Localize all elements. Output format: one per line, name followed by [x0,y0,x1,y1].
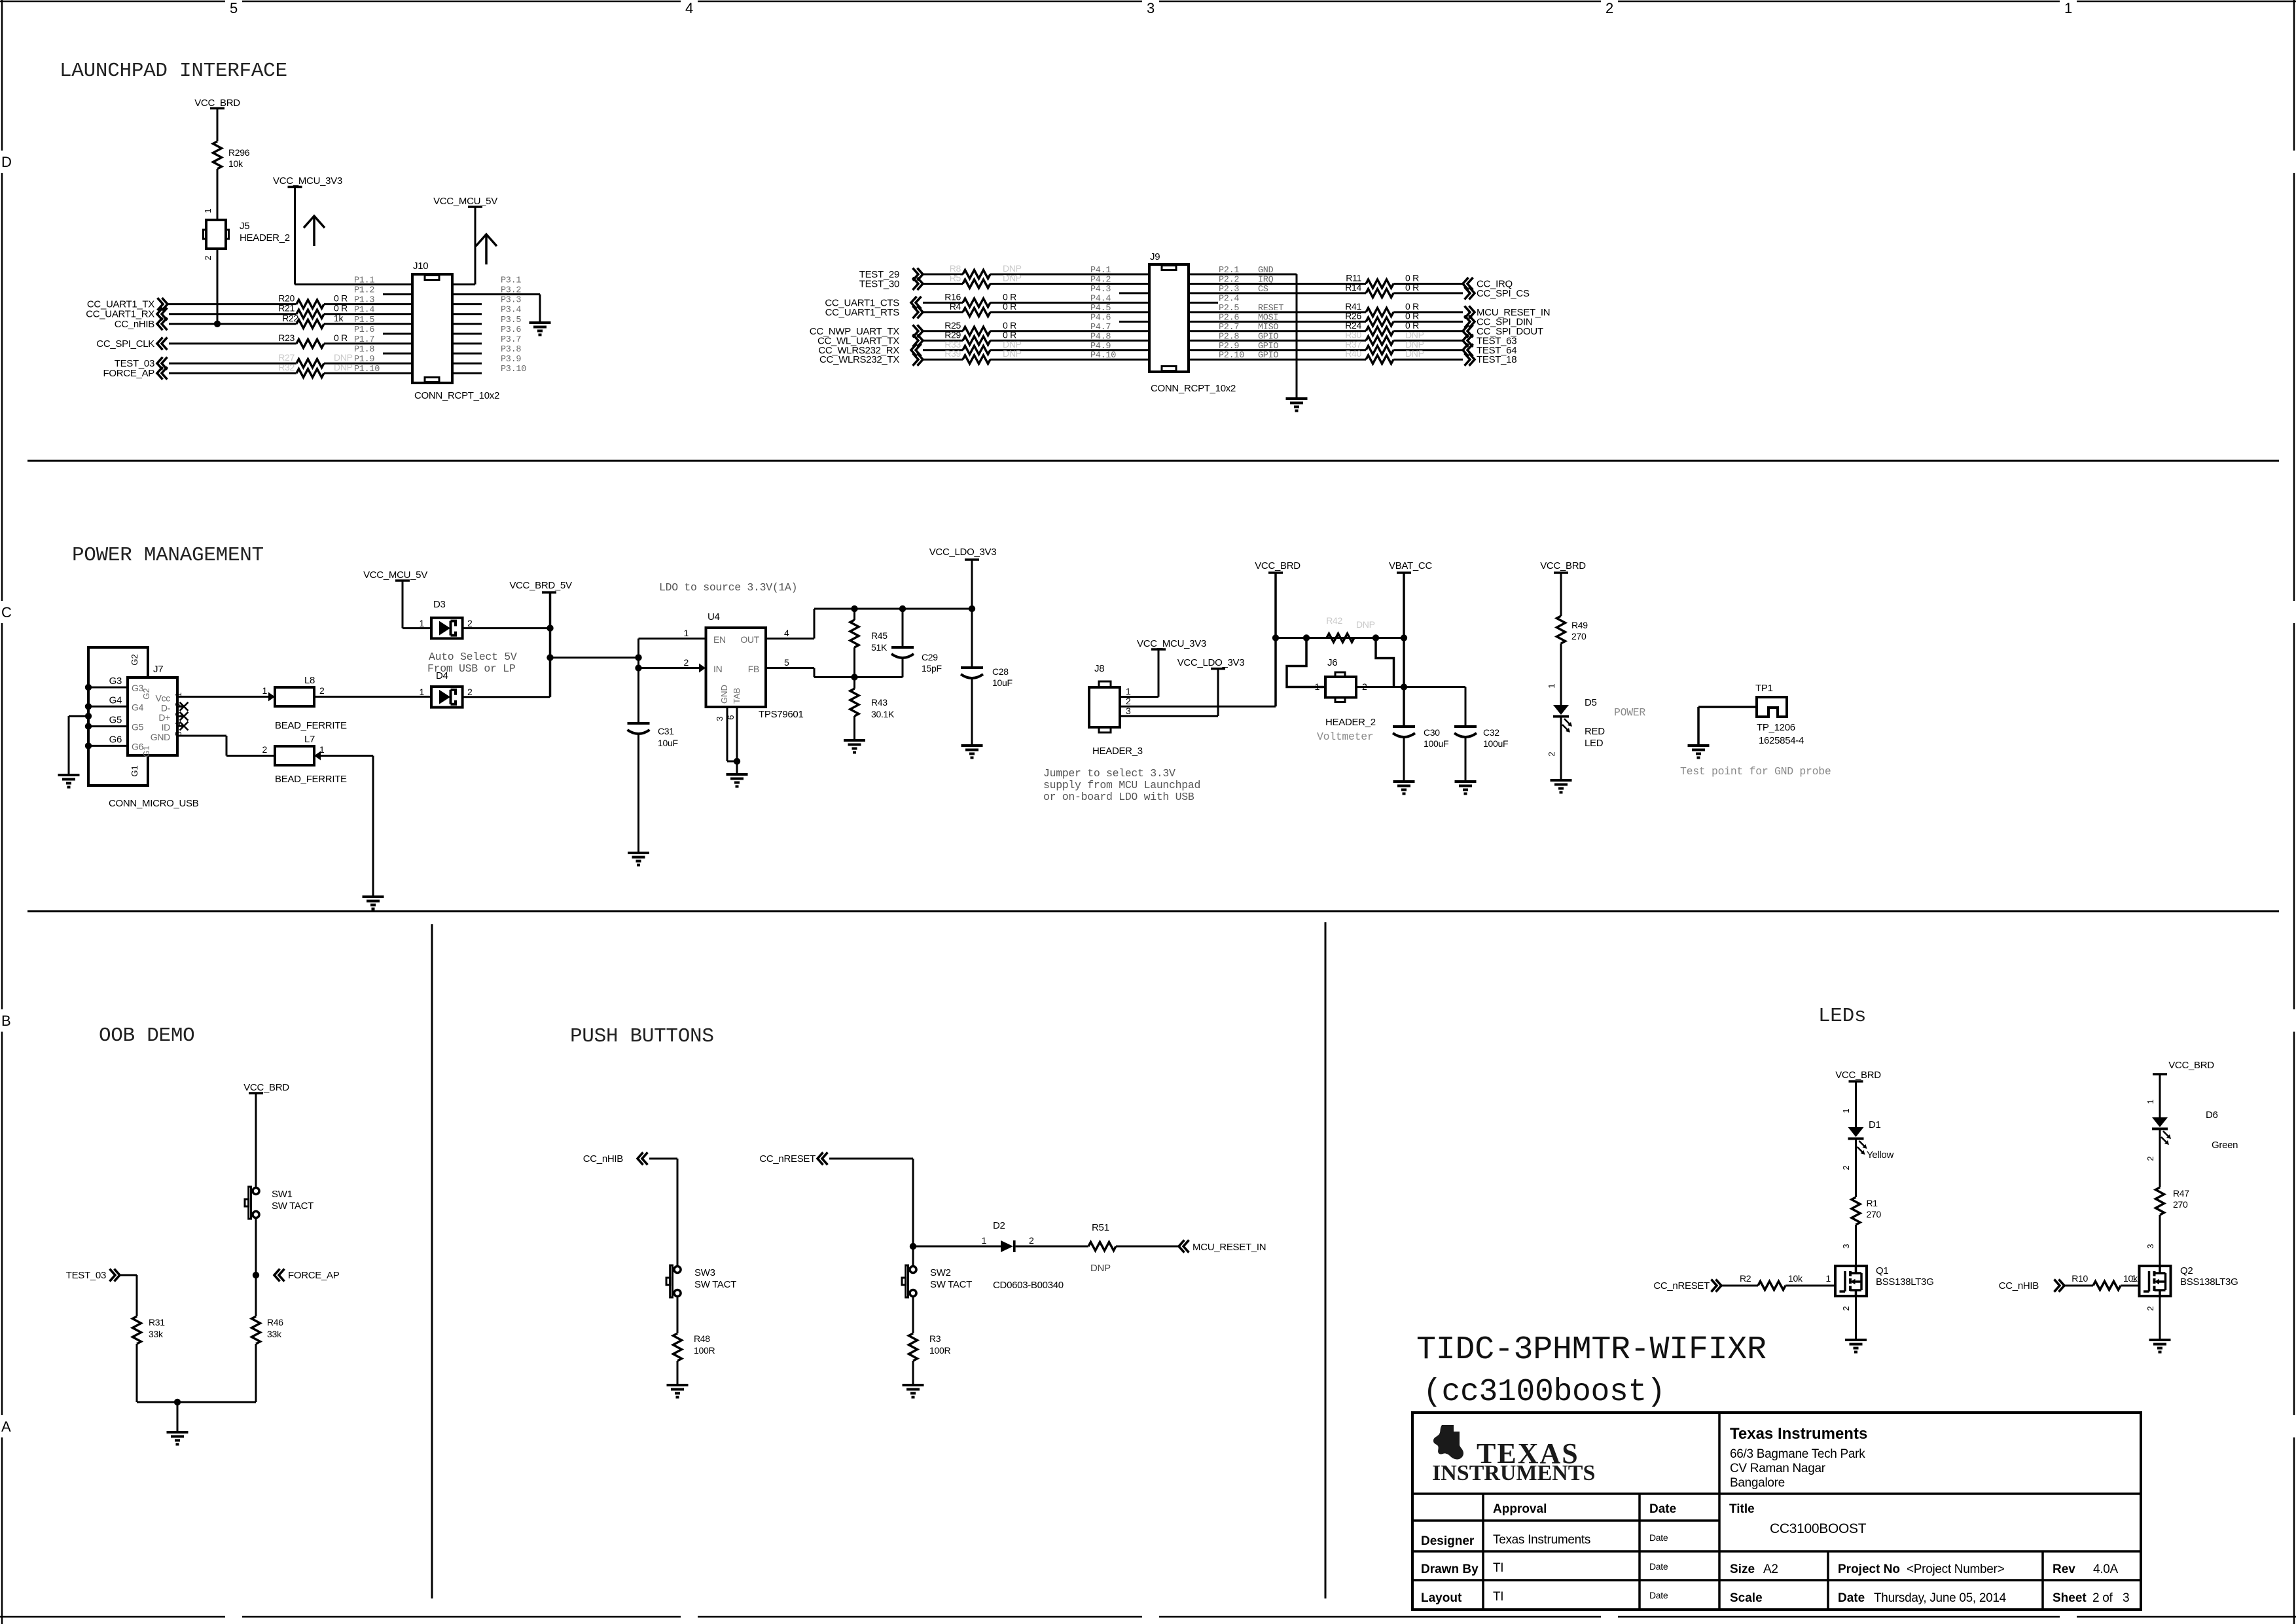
svg-text:L7: L7 [304,734,315,745]
svg-text:POWER MANAGEMENT: POWER MANAGEMENT [72,544,264,567]
svg-text:VCC_MCU_5V: VCC_MCU_5V [433,196,497,207]
svg-text:C28: C28 [992,666,1009,677]
svg-text:DNP: DNP [1405,348,1424,359]
wire U4 FB [766,667,814,669]
svg-text:SW3: SW3 [694,1267,715,1278]
wire VCC_MCU_5V to J10 P3.1 [475,207,476,285]
svg-text:G1: G1 [141,746,151,757]
resistor R22 1k [296,319,324,328]
svg-text:1k: 1k [334,313,344,323]
wire J7 Vcc to L8 [177,696,268,698]
resistor R29 0 R [963,336,990,345]
svg-text:J6: J6 [1327,657,1337,668]
wire J9 to resistor R11 [1189,283,1366,285]
wire resistor to J9 [990,283,1149,285]
pin G5 J7 [88,725,128,727]
svg-text:CONN_MICRO_USB: CONN_MICRO_USB [109,798,199,809]
svg-text:CC_UART1_RTS: CC_UART1_RTS [825,307,900,318]
wire CC_nHIB to SW3 [649,1158,677,1160]
svg-text:Q2: Q2 [2180,1265,2193,1276]
wire resistor to MCU_RESET_IN [1393,311,1463,313]
svg-text:SW TACT: SW TACT [694,1279,736,1290]
svg-text:CC_nRESET: CC_nRESET [1653,1280,1710,1291]
junction bus at J6 pin2 branch [1372,634,1379,641]
svg-text:P3.3: P3.3 [501,296,521,306]
resistor R24 0 R [1366,327,1393,335]
node TEST_64 [1463,344,1469,356]
svg-text:1: 1 [2132,1273,2137,1284]
svg-text:Jumper to select 3.3V: Jumper to select 3.3V [1043,767,1175,780]
wire CC_WL_UART_TX to resistor [923,340,963,342]
svg-text:D6: D6 [2206,1110,2218,1121]
svg-text:P1.8: P1.8 [354,345,374,355]
svg-text:1: 1 [1841,1108,1851,1113]
wire stub P4.6 [1119,321,1149,323]
resistor R296 10k [213,141,222,169]
wire D4 to VCC_BRD_5V [463,696,550,698]
svg-text:VCC_MCU_3V3: VCC_MCU_3V3 [273,175,342,187]
resistor R26 0 R [1366,317,1393,326]
junction VCC_BRD_5V / LDO input [547,654,553,660]
node MCU_RESET_IN (push buttons) [1179,1240,1185,1253]
svg-text:5: 5 [784,657,789,668]
wire TP1 to ground [1698,706,1757,708]
svg-text:SW TACT: SW TACT [930,1279,972,1290]
svg-text:Rev: Rev [2053,1562,2075,1576]
wire stub P1.6 [383,333,412,334]
svg-text:TEST_03: TEST_03 [66,1270,106,1281]
svg-text:1: 1 [982,1235,987,1246]
resistor R30 DNP [1366,336,1393,345]
resistor R33 DNP [963,346,990,354]
svg-text:R46: R46 [267,1317,283,1327]
resistor R5 DNP [963,280,990,288]
svg-text:ID: ID [162,722,171,732]
svg-text:1: 1 [420,618,425,628]
wire D2 to R51 [1016,1246,1088,1248]
svg-text:Yellow: Yellow [1867,1149,1893,1161]
junction VCC_BRD_5V / D3 [547,624,553,631]
wire U4 OUT to output bus [766,638,814,640]
ground at J10 P3.2 [529,321,551,324]
svg-text:2: 2 [1605,0,1613,16]
svg-text:VCC_LDO_3V3: VCC_LDO_3V3 [929,547,997,558]
svg-text:1: 1 [1826,1273,1831,1284]
wire stub P2.4 [1189,302,1218,304]
wire CC_nHIB to R10 [2064,1285,2093,1287]
svg-text:VCC_BRD_5V: VCC_BRD_5V [509,580,572,591]
svg-text:OOB DEMO: OOB DEMO [99,1024,194,1047]
capacitor C29 15pF [902,609,904,647]
svg-text:J8: J8 [1094,663,1104,674]
svg-text:FORCE_AP: FORCE_AP [103,368,155,379]
junction R45 top [851,605,857,612]
node CC_IRQ [1463,278,1469,290]
svg-text:Auto Select 5V: Auto Select 5V [429,651,517,663]
svg-text:Texas Instruments: Texas Instruments [1493,1533,1590,1547]
no-connect stub J7 [177,725,183,727]
svg-text:C30: C30 [1424,727,1440,738]
svg-text:1: 1 [684,628,689,638]
svg-text:CC_WLRS232_TX: CC_WLRS232_TX [819,354,899,365]
resistor R3 100R [909,1333,918,1361]
wire L8 to D4 [314,696,431,698]
svg-text:J10: J10 [413,261,428,272]
resistor R11 0 R [1366,280,1393,288]
svg-text:Scale: Scale [1730,1591,1763,1605]
svg-text:1: 1 [1315,681,1320,692]
wire CC_nRESET to SW2 [829,1158,913,1160]
wire R2 to Q1 gate [1785,1285,1835,1287]
wire resistor to J9 [990,274,1149,276]
node CC_SPI_CS [1469,287,1475,299]
svg-text:D-: D- [161,702,171,713]
resistor R49 270 [1557,616,1566,643]
LED D5 RED [1553,705,1569,715]
svg-text:Sheet: Sheet [2053,1591,2087,1605]
svg-text:2: 2 [203,255,213,260]
wire VCC_BRD to R296 [217,109,219,142]
svg-text:A2: A2 [1763,1562,1778,1576]
resistor R51 DNP [1088,1242,1116,1251]
svg-text:J5: J5 [240,221,249,232]
wire stub P1.2 [383,293,412,295]
svg-text:BSS138LT3G: BSS138LT3G [2180,1276,2238,1288]
section divider horizontal 2 [27,911,2279,912]
svg-text:2: 2 [467,687,473,697]
svg-text:TAB: TAB [732,688,742,704]
svg-text:P3.4: P3.4 [501,306,521,316]
svg-text:D+: D+ [158,712,170,723]
no-connect stub J7 [177,715,183,717]
svg-text:G2: G2 [130,654,139,665]
svg-text:P1.6: P1.6 [354,325,374,335]
svg-text:GND: GND [151,732,170,742]
wire bus VCC_BRD to VBAT_CC [1276,637,1404,639]
svg-text:VBAT_CC: VBAT_CC [1389,560,1432,571]
svg-text:CD0603-B00340: CD0603-B00340 [993,1280,1064,1291]
junction R43 top [851,674,857,680]
wire to C31 [637,668,639,724]
svg-text:Texas Instruments: Texas Instruments [1730,1425,1867,1443]
wire J6 pin2 to VBAT_CC [1356,686,1404,688]
svg-text:270: 270 [1867,1209,1882,1219]
resistor R47 270 [2156,1187,2164,1215]
svg-text:DNP: DNP [334,362,353,372]
capacitor C30 100uF [1393,725,1415,728]
svg-text:0 R: 0 R [1405,282,1419,293]
svg-text:CC3100BOOST: CC3100BOOST [1770,1521,1867,1536]
svg-text:Voltmeter: Voltmeter [1317,731,1373,743]
svg-text:R32: R32 [278,362,295,372]
svg-text:33k: 33k [149,1329,164,1339]
title block column line B [1638,1494,1641,1610]
svg-text:Green: Green [2212,1140,2238,1151]
wire J9 to resistor R14 [1189,292,1366,294]
ground at Q2 [2149,1339,2171,1341]
title block column line A [1482,1494,1484,1610]
wire C31 to ground [637,734,639,853]
resistor R23 0 R [296,339,324,348]
svg-text:R31: R31 [149,1317,165,1327]
ground at C31 [628,852,649,854]
wire stub P3.8 [452,353,482,355]
transistor Q2 BSS138LT3G [2140,1266,2171,1296]
ground at C28 [961,744,983,747]
wire stub P3.10 [452,372,482,374]
svg-text:66/3 Bagmane Tech Park: 66/3 Bagmane Tech Park [1730,1447,1865,1461]
svg-text:0 R: 0 R [334,303,348,314]
svg-text:D3: D3 [433,599,446,610]
svg-text:R22: R22 [282,313,298,323]
svg-text:1: 1 [2145,1099,2155,1104]
svg-text:Project No: Project No [1838,1562,1900,1576]
svg-text:TPS79601: TPS79601 [759,709,803,720]
svg-text:2: 2 [467,618,473,628]
wire resistor to J10 [324,313,412,315]
wire R296 to J5 pin 1 [217,169,219,220]
resistor R41 0 R [1366,308,1393,316]
svg-text:2 of: 2 of [2092,1591,2113,1605]
svg-text:BEAD_FERRITE: BEAD_FERRITE [275,774,347,785]
svg-text:VCC_BRD: VCC_BRD [2168,1060,2214,1071]
wire resistor to CC_SPI_DOUT [1393,330,1463,332]
resistor R1 270 [1852,1197,1860,1225]
svg-text:SW TACT: SW TACT [272,1200,314,1212]
node MCU_RESET_IN [1469,306,1475,318]
junction ground rail [174,1399,181,1405]
svg-text:Title: Title [1729,1502,1755,1516]
svg-text:CC_SPI_CS: CC_SPI_CS [1477,288,1530,299]
wire resistor to TEST_63 [1393,340,1463,342]
svg-text:R296: R296 [228,147,250,158]
svg-text:1: 1 [262,685,268,696]
node CC_SPI_DIN [1469,316,1475,328]
junction FORCE_AP [253,1272,259,1278]
node CC_SPI_DOUT [1463,325,1469,337]
svg-text:VCC_LDO_3V3: VCC_LDO_3V3 [1177,657,1245,668]
svg-text:D1: D1 [1869,1119,1881,1130]
svg-text:C: C [1,604,12,621]
svg-text:TP1: TP1 [1755,683,1773,694]
svg-text:DNP: DNP [1003,273,1022,283]
wire CC_SPI_CLK to resistor [169,342,296,344]
wire to U4 EN [637,639,639,668]
svg-text:Date: Date [1649,1561,1668,1572]
wire resistor to J9 [990,311,1149,313]
svg-text:2: 2 [2145,1156,2155,1161]
ground at U4 [726,773,748,776]
svg-text:3: 3 [715,716,725,721]
power arrow near VCC_MCU_3V3 [313,216,315,246]
svg-text:2: 2 [2145,1306,2155,1310]
svg-text:G2: G2 [141,688,151,699]
svg-text:P3.10: P3.10 [501,365,526,374]
svg-text:10k: 10k [1788,1273,1803,1284]
svg-text:P1.2: P1.2 [354,286,374,296]
svg-text:Test point for GND probe: Test point for GND probe [1680,765,1831,778]
svg-text:LAUNCHPAD INTERFACE: LAUNCHPAD INTERFACE [60,60,287,82]
svg-text:2: 2 [1547,751,1556,756]
svg-text:Date: Date [1649,1590,1668,1600]
svg-text:R20: R20 [278,293,295,304]
svg-text:Thursday, June 05, 2014: Thursday, June 05, 2014 [1874,1591,2007,1605]
wire resistor to J10 [324,303,412,305]
wire to U4 IN [639,667,700,669]
ground at L7 [363,895,384,898]
svg-text:P3.8: P3.8 [501,345,521,355]
svg-text:P3.9: P3.9 [501,355,521,365]
svg-text:TEST_30: TEST_30 [859,279,899,290]
svg-text:HEADER_2: HEADER_2 [240,232,290,244]
section divider horizontal 1 [27,460,2279,462]
svg-text:G5: G5 [132,722,144,732]
svg-text:Bangalore: Bangalore [1730,1476,1785,1490]
svg-text:R45: R45 [871,630,888,641]
wire CC_WLRS232_RX to resistor [923,349,963,351]
svg-text:2: 2 [1841,1165,1851,1170]
svg-text:VCC_BRD: VCC_BRD [243,1082,289,1093]
wire SW1 to FORCE_AP node [255,1218,257,1317]
wire resistor to J10 [324,363,412,365]
svg-text:R40: R40 [1345,348,1361,359]
svg-text:2: 2 [684,657,689,668]
svg-text:P3.6: P3.6 [501,325,521,335]
svg-text:HEADER_2: HEADER_2 [1325,717,1376,728]
wire stub P1.8 [383,353,412,355]
wire J5 pin 2 to CC_nHIB net [217,249,219,324]
ground at TP1 [1688,744,1710,747]
svg-text:4: 4 [685,0,693,16]
svg-text:VCC_BRD: VCC_BRD [1835,1070,1881,1081]
svg-text:3: 3 [1147,0,1155,16]
svg-text:LEDs: LEDs [1818,1005,1866,1028]
title block outer frame [1412,1413,2141,1610]
junction bus at J6 pin1 branch [1303,634,1310,641]
wire FORCE_AP to resistor [169,372,296,374]
svg-text:LDO to source 3.3V(1A): LDO to source 3.3V(1A) [659,581,797,594]
svg-text:P4.3: P4.3 [1090,285,1111,295]
svg-text:D5: D5 [1585,697,1597,708]
resistor R48 100R [673,1333,682,1361]
svg-text:J7: J7 [153,664,163,675]
ground at SW3 [667,1384,689,1386]
svg-text:P4.6: P4.6 [1090,313,1111,323]
title block row line 3 [1412,1550,2141,1553]
wire stub P3.4 [452,313,482,315]
svg-text:Approval: Approval [1493,1502,1547,1516]
svg-text:R2: R2 [1740,1273,1751,1284]
node TEST_63 [1463,334,1469,347]
svg-text:R14: R14 [1345,282,1361,293]
resistor R39 DNP [963,355,990,364]
wire resistor to J9 [990,359,1149,361]
wire stub P3.6 [452,333,482,334]
svg-text:4: 4 [784,628,789,638]
junction VBAT_CC / C32 branch [1401,683,1407,690]
switch SW3 SW TACT [674,1267,681,1273]
wire stub P3.7 [452,342,482,344]
svg-text:3: 3 [1841,1244,1851,1248]
svg-text:GND: GND [719,685,729,704]
wire CC_nRESET to R2 [1721,1285,1758,1287]
wire Q2 source to ground [2159,1296,2161,1340]
svg-text:LED: LED [1585,738,1604,749]
wire TEST_03 to R31 [120,1274,137,1276]
svg-text:R43: R43 [871,697,888,708]
svg-text:supply from MCU Launchpad: supply from MCU Launchpad [1043,779,1200,791]
svg-text:C32: C32 [1483,727,1499,738]
svg-text:CC_nHIB: CC_nHIB [1999,1280,2039,1291]
svg-text:DNP: DNP [1003,348,1022,359]
resistor R8 DNP [963,270,990,279]
resistor R21 0 R [296,310,324,318]
wire J8 pin2 to VCC_BRD [1120,706,1276,708]
svg-text:0 R: 0 R [334,293,348,304]
Texas Instruments logo [1433,1425,1463,1460]
wire R51 to MCU_RESET_IN [1116,1246,1179,1248]
capacitor C31 10uF [628,722,650,725]
resistor R31 33k [133,1316,141,1344]
svg-text:G5: G5 [109,715,122,726]
pin G3 J7 [88,687,128,689]
svg-text:1: 1 [1126,686,1131,696]
ground at C30 [1393,780,1415,783]
junction J5/CC_nHIB [214,321,221,327]
svg-text:SW2: SW2 [930,1267,951,1278]
wire stub P3.3 [452,303,482,305]
wire stub P3.9 [452,363,482,365]
wire resistor to J9 [990,330,1149,332]
svg-text:100R: 100R [929,1345,950,1356]
svg-text:J9: J9 [1150,251,1160,262]
title block column line C [1718,1413,1721,1610]
resistor R37 DNP [1366,346,1393,354]
svg-text:CONN_RCPT_10x2: CONN_RCPT_10x2 [414,390,499,401]
resistor R20 0 R [296,300,324,308]
svg-text:Layout: Layout [1421,1591,1462,1605]
title block row line 4 [1412,1579,2141,1581]
wire to C32 [1404,686,1465,688]
wire R31/R46 to ground rail [136,1344,138,1402]
svg-text:R51: R51 [1092,1222,1109,1233]
svg-text:2: 2 [1029,1235,1034,1246]
resistor R16 0 R [963,298,990,307]
resistor R32 DNP [296,369,324,378]
junction LDO input node [635,654,641,660]
svg-text:HEADER_3: HEADER_3 [1092,746,1143,757]
wire J9 to resistor R40 [1189,359,1366,361]
switch SW2 SW TACT [910,1267,916,1273]
svg-text:270: 270 [1571,631,1587,641]
node TEST_18 [1469,353,1475,366]
svg-text:100uF: 100uF [1483,738,1508,749]
title block row line 2 (left) [1412,1519,1719,1522]
wire stub P3.5 [452,323,482,325]
wire Q1 source to ground [1855,1296,1857,1340]
wire CC_UART1_RX to resistor [169,313,296,315]
svg-text:U4: U4 [708,611,720,623]
svg-text:4.0A: 4.0A [2093,1562,2119,1576]
node FORCE_AP [274,1269,280,1282]
switch SW1 SW TACT [253,1188,259,1195]
wire resistor to J9 [990,302,1149,304]
svg-text:Vcc: Vcc [156,693,171,703]
wire SW3 to R48 [677,1297,679,1334]
LED D6 Green [2152,1117,2168,1127]
wire J7 shell to ground [69,715,88,717]
section divider vertical 2 [1325,922,1327,1598]
